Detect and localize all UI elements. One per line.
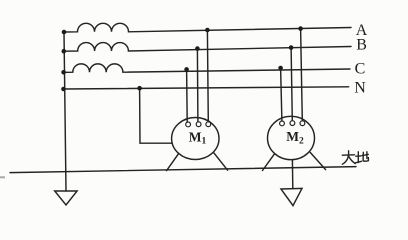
svg-text:M1: M1 [189,129,207,146]
svg-text:N: N [354,80,366,97]
svg-text:M2: M2 [286,129,304,146]
svg-text:B: B [356,37,367,54]
svg-text:C: C [355,60,366,77]
